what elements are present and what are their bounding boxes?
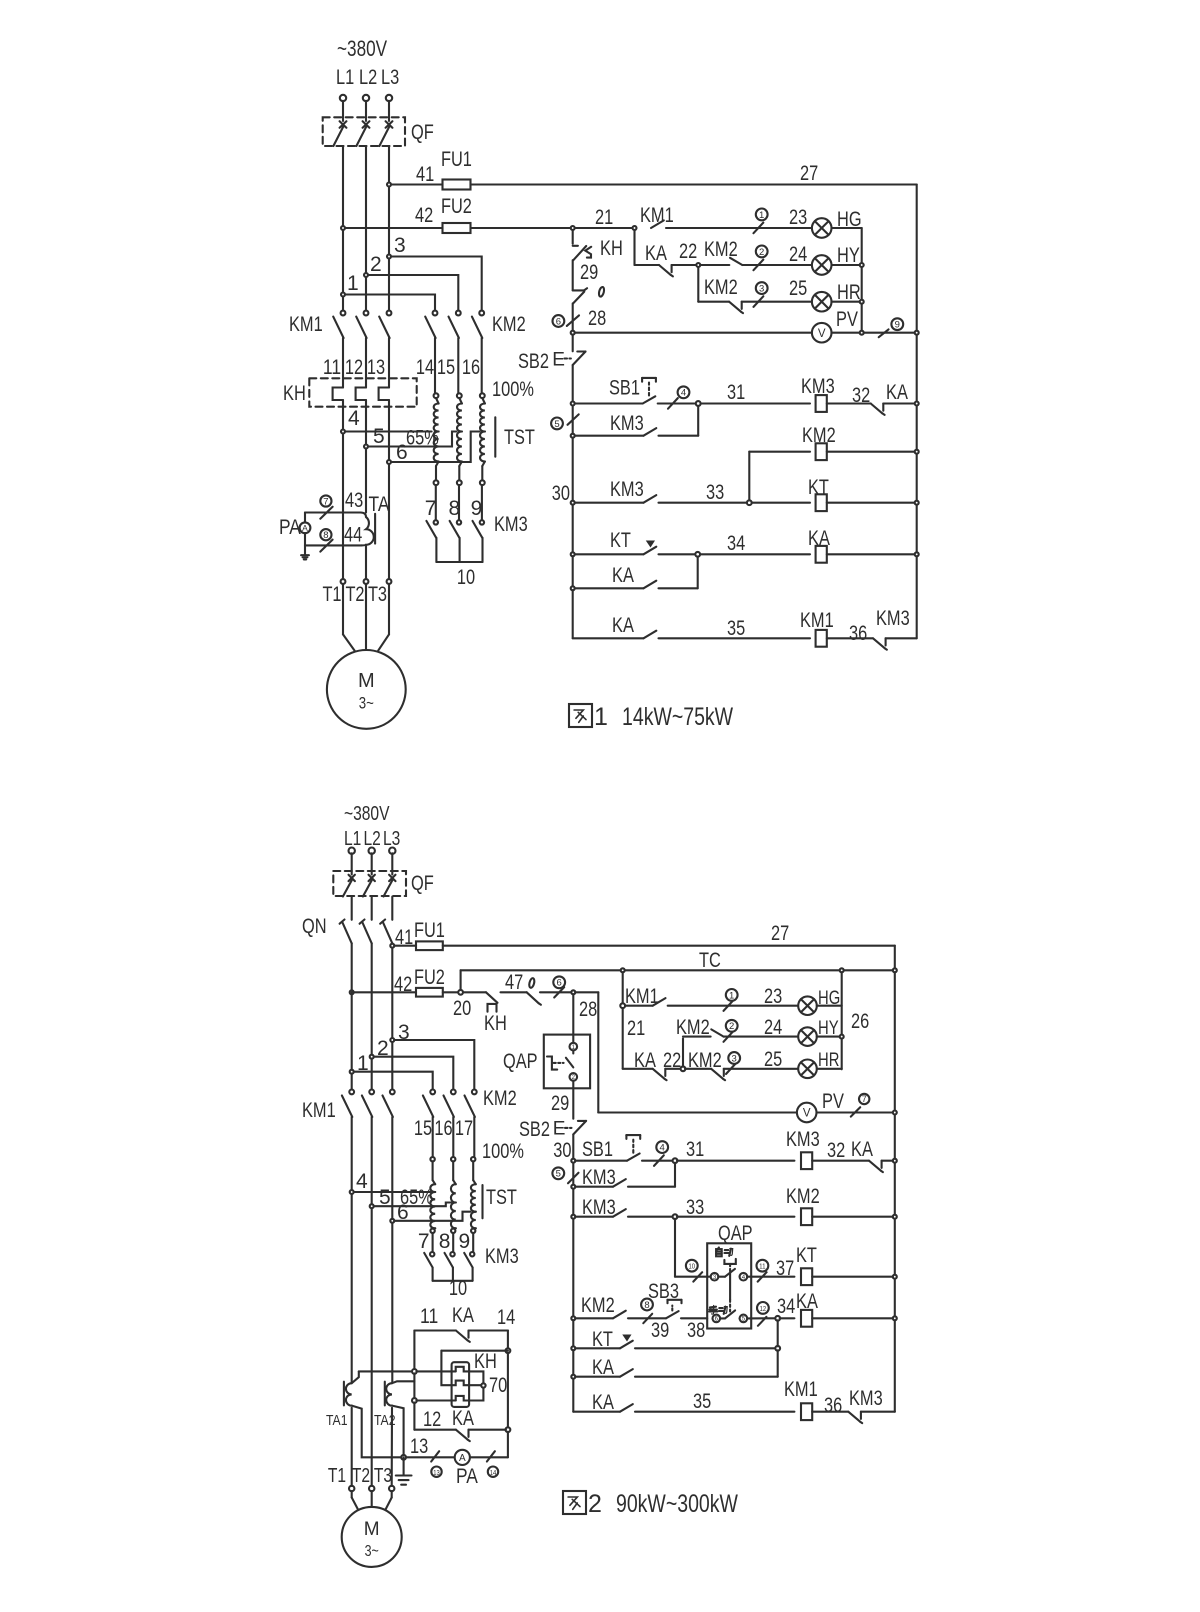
control rail left fig1: [571, 226, 575, 230]
circled 13: [431, 1467, 441, 1477]
wire L1 drop: [342, 101, 344, 121]
svg-text:7: 7: [323, 496, 328, 507]
svg-text:15: 15: [414, 1117, 432, 1140]
svg-text:31: 31: [686, 1138, 704, 1161]
svg-text:38: 38: [687, 1319, 705, 1342]
svg-text:29: 29: [551, 1092, 569, 1115]
svg-text:9: 9: [895, 320, 900, 331]
svg-text:KT: KT: [610, 529, 631, 552]
svg-text:M: M: [364, 1519, 380, 1540]
svg-text:65%: 65%: [406, 427, 439, 450]
svg-text:KM3: KM3: [610, 478, 644, 501]
terminal marker 2 fig2: [724, 1031, 734, 1042]
star bar 10 fig2: [433, 1280, 473, 1282]
wire 28 branch: [575, 991, 598, 993]
terminal marker 3 fig2: [726, 1063, 736, 1074]
terminal T1: [341, 579, 346, 584]
svg-text:KM3: KM3: [485, 1245, 519, 1268]
svg-text:4: 4: [681, 388, 686, 399]
circuit breaker QF fig2: [333, 871, 406, 896]
svg-text:TST: TST: [504, 426, 535, 449]
svg-text:KA: KA: [886, 381, 908, 404]
svg-text:~380V: ~380V: [344, 803, 390, 825]
svg-text:4: 4: [356, 1170, 368, 1193]
wire 44 to ammeter: [305, 544, 362, 546]
wires below QF fig2: [351, 897, 353, 920]
svg-text:KM2: KM2: [704, 276, 738, 299]
svg-text:E: E: [553, 1119, 566, 1140]
svg-text:KA: KA: [612, 614, 634, 637]
svg-text:90kW~300kW: 90kW~300kW: [616, 1490, 738, 1518]
terminal T3: [387, 579, 392, 584]
svg-text:16: 16: [434, 1117, 452, 1140]
terminal L3: [386, 95, 392, 101]
caption fig1: [569, 704, 592, 727]
svg-text:2: 2: [370, 253, 382, 276]
terminal marker 6 fig2: [554, 987, 564, 997]
svg-text:25: 25: [789, 277, 807, 300]
svg-text:PV: PV: [836, 308, 858, 331]
svg-text:HR: HR: [837, 281, 861, 304]
svg-text:3: 3: [732, 1053, 737, 1064]
terminal marker 8: [320, 540, 332, 552]
svg-text:32: 32: [827, 1139, 845, 1162]
svg-text:9: 9: [471, 497, 483, 520]
ammeter PA fig2: [455, 1450, 470, 1465]
row auto contact 37 KT fig2: [674, 1219, 676, 1277]
svg-text:9: 9: [458, 1230, 470, 1253]
row 35: KA contact to KM1 coil: [573, 637, 644, 639]
svg-text:KM2: KM2: [704, 238, 738, 261]
svg-text:SB1: SB1: [582, 1138, 613, 1161]
row 35 KM1 36 KM3 fig2: [573, 1411, 620, 1413]
terminal marker 3: [754, 296, 764, 307]
wire L2 drop: [365, 101, 367, 121]
svg-text:1: 1: [759, 210, 764, 221]
svg-text:4: 4: [660, 1143, 665, 1154]
lamp bus 26 fig2: [840, 968, 844, 972]
svg-text:100%: 100%: [482, 1140, 524, 1163]
fuse FU2 fig2: [350, 990, 354, 994]
svg-text:SB1: SB1: [609, 377, 640, 400]
svg-text:E: E: [552, 349, 565, 370]
svg-text:L2: L2: [359, 66, 377, 89]
transformer TC: [461, 969, 895, 971]
svg-text:2: 2: [759, 247, 764, 258]
svg-text:A: A: [302, 523, 308, 533]
contact with theta: [573, 289, 584, 291]
wire T1 to TA1 continue: [351, 1408, 353, 1486]
svg-text:KH: KH: [600, 237, 623, 260]
heater element 2: [452, 1381, 470, 1386]
wire 43 to ammeter: [305, 511, 361, 513]
svg-text:43: 43: [345, 489, 363, 512]
svg-text:42: 42: [394, 973, 412, 996]
svg-text:30: 30: [552, 482, 570, 505]
fuse FU2: [341, 226, 345, 230]
svg-text:1: 1: [729, 990, 734, 1001]
heater element 3: [416, 1399, 455, 1401]
svg-text:QF: QF: [411, 872, 434, 895]
svg-text:KM3: KM3: [786, 1128, 820, 1151]
node PV row: [571, 331, 575, 335]
svg-text:QN: QN: [302, 915, 327, 938]
svg-text:8: 8: [323, 530, 328, 541]
svg-text:35: 35: [693, 1390, 711, 1413]
terminal marker 1: [754, 223, 764, 234]
svg-text:13: 13: [410, 1435, 428, 1458]
svg-text:KT: KT: [592, 1328, 613, 1351]
wire TA1 secondary top: [359, 1370, 413, 1372]
svg-text:TA: TA: [369, 493, 390, 516]
svg-text:KA: KA: [452, 1304, 474, 1327]
svg-text:35: 35: [727, 617, 745, 640]
svg-text:33: 33: [706, 481, 724, 504]
svg-text:1: 1: [594, 703, 608, 731]
node 20: [458, 990, 463, 995]
svg-text:31: 31: [727, 381, 745, 404]
svg-text:7: 7: [418, 1230, 430, 1253]
terminal marker 1 fig2: [724, 1000, 734, 1011]
star point bar 10: [436, 561, 482, 563]
row HG: contact KM1: [633, 226, 637, 230]
svg-text:KM3: KM3: [582, 1196, 616, 1219]
svg-text:QF: QF: [411, 121, 434, 144]
svg-text:TST: TST: [486, 1186, 517, 1209]
svg-text:11: 11: [323, 356, 341, 379]
svg-text:3: 3: [394, 234, 406, 257]
row HY: contact KA NC: [633, 230, 635, 265]
svg-text:25: 25: [764, 1048, 782, 1071]
svg-text:L3: L3: [381, 66, 399, 89]
lamp HG fig2: [798, 996, 817, 1015]
svg-text:13: 13: [433, 1468, 440, 1477]
fuse FU1: [387, 183, 391, 187]
wire FU2 to control rail: [471, 227, 571, 229]
svg-text:KM3: KM3: [494, 513, 528, 536]
row KM3 seal-in fig2: [572, 1163, 574, 1185]
svg-text:34: 34: [727, 532, 745, 555]
svg-text:QAP: QAP: [718, 1222, 753, 1245]
svg-text:KM3: KM3: [582, 1166, 616, 1189]
svg-text:32: 32: [852, 384, 870, 407]
terminal marker 5: [568, 414, 579, 424]
svg-text:PA: PA: [456, 1465, 478, 1488]
svg-text:5: 5: [556, 1169, 561, 1180]
svg-text:30: 30: [553, 1139, 571, 1162]
lamp bus fig1: [861, 228, 863, 333]
node 70: [469, 1371, 483, 1383]
right rail fig2: [894, 946, 896, 971]
svg-text:KM2: KM2: [492, 313, 526, 336]
svg-text:4: 4: [348, 407, 360, 430]
lamp HG: [812, 218, 832, 238]
svg-text:11: 11: [759, 1262, 766, 1271]
wires mains drops fig2: [351, 853, 353, 874]
svg-text:12: 12: [760, 1304, 767, 1313]
heater element 1: [416, 1370, 455, 1372]
svg-text:37: 37: [776, 1257, 794, 1280]
terminal marker 7 fig2: [851, 1107, 860, 1116]
left vertical of KA block: [413, 1331, 415, 1370]
terminal marker 6: [567, 315, 579, 326]
wire 27 top bus: [471, 183, 917, 185]
svg-text:10: 10: [457, 566, 475, 589]
svg-text:3~: 3~: [359, 694, 374, 713]
svg-text:23: 23: [764, 985, 782, 1008]
svg-text:5: 5: [373, 425, 385, 448]
svg-text:KH: KH: [474, 1350, 497, 1373]
wire TA1 secondary bottom: [352, 1406, 402, 1458]
svg-text:3~: 3~: [365, 1543, 379, 1560]
row HR: contact KM2 lower: [697, 267, 699, 302]
svg-text:7: 7: [425, 497, 437, 520]
svg-text:T1: T1: [322, 583, 341, 606]
svg-text:15: 15: [437, 356, 455, 379]
svg-text:KH: KH: [283, 382, 306, 405]
wire KH feed top: [441, 1351, 451, 1386]
terminal marker 10: [693, 1272, 702, 1281]
wire TA2 secondary top: [392, 1381, 414, 1383]
top bus 27 fig2: [443, 945, 895, 947]
svg-text:34: 34: [777, 1295, 795, 1318]
row KM3 seal-in contact: [571, 434, 575, 438]
svg-text:26: 26: [851, 1010, 869, 1033]
svg-text:20: 20: [453, 997, 471, 1020]
svg-text:11: 11: [420, 1305, 438, 1328]
terminals L1 L2 L3 fig2: [349, 848, 355, 854]
terminal marker 8: [643, 1314, 652, 1323]
svg-text:SB2: SB2: [518, 350, 549, 373]
svg-text:FU1: FU1: [414, 919, 445, 942]
row KA contact fig2: [572, 1350, 574, 1374]
wire TA2 secondary bottom: [392, 1406, 404, 1456]
row PV fig2: [598, 1111, 797, 1113]
svg-text:24: 24: [764, 1016, 782, 1039]
svg-text:KA: KA: [851, 1138, 873, 1161]
svg-text:FU2: FU2: [414, 966, 445, 989]
svg-text:FU2: FU2: [441, 195, 472, 218]
svg-text:12: 12: [423, 1408, 441, 1431]
row SB1: start button: [571, 402, 575, 406]
svg-text:36: 36: [849, 622, 867, 645]
autotransformer TST: [434, 393, 439, 398]
svg-text:6: 6: [557, 978, 562, 989]
svg-text:T2: T2: [352, 1465, 370, 1487]
wire T3 continue: [391, 1408, 393, 1486]
svg-text:KM3: KM3: [876, 607, 910, 630]
row PV: voltmeter: [575, 332, 812, 334]
svg-text:21: 21: [595, 206, 613, 229]
svg-text:KM1: KM1: [302, 1099, 336, 1122]
svg-text:KM1: KM1: [784, 1378, 818, 1401]
svg-text:16: 16: [462, 356, 480, 379]
svg-text:41: 41: [395, 926, 413, 949]
motor M fig2: [351, 1491, 353, 1497]
wire L2 below QF: [365, 146, 367, 311]
terminal marker 4 fig2: [654, 1155, 664, 1166]
svg-text:TA1: TA1: [326, 1412, 348, 1429]
svg-text:V: V: [818, 328, 826, 340]
svg-text:PV: PV: [822, 1090, 844, 1113]
svg-text:QAP: QAP: [503, 1050, 538, 1073]
svg-text:KA: KA: [645, 242, 667, 265]
svg-text:KM2: KM2: [581, 1294, 615, 1317]
terminal marker 2: [754, 260, 764, 271]
motor M 3~: [342, 584, 344, 635]
svg-text:44: 44: [344, 524, 362, 547]
svg-text:2: 2: [588, 1490, 602, 1518]
svg-text:12: 12: [345, 356, 363, 379]
svg-text:14: 14: [490, 1468, 497, 1477]
wire right rail fig1: [916, 185, 918, 639]
svg-text:KT: KT: [796, 1244, 817, 1267]
wire L3 below QF: [388, 146, 390, 311]
terminal L2: [363, 95, 369, 101]
wire L1 below QF: [342, 146, 344, 311]
svg-text:PA: PA: [279, 516, 301, 539]
svg-text:TC: TC: [699, 949, 721, 972]
svg-text:10: 10: [689, 1262, 696, 1271]
svg-text:21: 21: [627, 1017, 645, 1040]
svg-text:V: V: [803, 1108, 811, 1120]
right vertical of KA block: [507, 1331, 509, 1349]
svg-text:14: 14: [416, 356, 434, 379]
svg-text:28: 28: [579, 998, 597, 1021]
row HY fig2: [622, 1008, 624, 1069]
terminal marker 7: [320, 507, 332, 519]
lamp HY fig2: [798, 1027, 817, 1046]
terminal marker 4: [668, 398, 678, 409]
row KT contact to KA coil: [571, 552, 575, 556]
svg-text:33: 33: [686, 1196, 704, 1219]
wire L3 to tap3: [391, 948, 393, 1038]
svg-text:14kW~75kW: 14kW~75kW: [622, 703, 733, 731]
svg-text:36: 36: [824, 1394, 842, 1417]
row KM2 coil: [749, 451, 810, 453]
svg-text:KH: KH: [484, 1012, 507, 1035]
svg-text:24: 24: [789, 243, 807, 266]
svg-text:5: 5: [554, 419, 559, 430]
row KM3 33 KM2-coil fig2: [571, 1215, 575, 1219]
lamp HY: [812, 255, 832, 275]
lamp feed vertical fig2: [621, 968, 625, 972]
thermal contact KH fig2: [463, 991, 486, 993]
svg-text:27: 27: [800, 162, 818, 185]
svg-text:L1: L1: [336, 66, 354, 89]
svg-text:100%: 100%: [492, 378, 534, 401]
svg-text:29: 29: [580, 261, 598, 284]
wire KM2 coil branch: [748, 452, 750, 501]
svg-text:KM3: KM3: [610, 412, 644, 435]
svg-text:70: 70: [489, 1374, 507, 1397]
circled 14: [488, 1467, 498, 1477]
row HR fig2: [623, 1068, 653, 1070]
row HG fig2: [620, 1003, 625, 1008]
svg-text:13: 13: [367, 356, 385, 379]
terminal marker 9: [879, 329, 889, 337]
terminal marker 12: [758, 1317, 767, 1326]
caption fig2: [563, 1491, 586, 1514]
svg-text:39: 39: [651, 1319, 669, 1342]
svg-text:T1: T1: [328, 1465, 346, 1487]
svg-text:3: 3: [759, 284, 764, 295]
ground fig2: [403, 1457, 405, 1475]
row KM2 SB3 manual 34 KA fig2: [571, 1316, 575, 1320]
voltmeter PV: [812, 323, 832, 343]
svg-text:KM1: KM1: [800, 609, 834, 632]
svg-text:KM2: KM2: [786, 1185, 820, 1208]
svg-text:HY: HY: [837, 244, 860, 267]
terminal T2: [364, 579, 369, 584]
pushbutton SB3: [666, 1311, 679, 1318]
svg-text:KA: KA: [592, 1356, 614, 1379]
row SB1 fig2: [571, 1159, 575, 1163]
svg-text:23: 23: [789, 206, 807, 229]
terminal marker 5 fig2: [568, 1173, 579, 1183]
ground: [304, 545, 306, 555]
svg-text:8: 8: [439, 1230, 451, 1253]
svg-text:10: 10: [449, 1277, 467, 1300]
svg-text:KA: KA: [452, 1407, 474, 1430]
svg-text:M: M: [358, 670, 375, 692]
svg-text:KM1: KM1: [289, 313, 323, 336]
svg-text:1: 1: [347, 272, 359, 295]
svg-text:KM2: KM2: [483, 1087, 517, 1110]
svg-text:14: 14: [497, 1306, 515, 1329]
lamp HR: [812, 292, 832, 312]
svg-text:41: 41: [416, 163, 434, 186]
svg-text:28: 28: [588, 307, 606, 330]
svg-text:2: 2: [729, 1021, 734, 1032]
circuit breaker QF: [323, 117, 405, 146]
svg-text:47: 47: [505, 971, 523, 994]
svg-text:42: 42: [415, 204, 433, 227]
svg-text:27: 27: [771, 922, 789, 945]
wire L3 drop: [388, 101, 390, 121]
svg-text:SB2: SB2: [519, 1118, 550, 1141]
svg-text:~380V: ~380V: [337, 36, 387, 61]
svg-text:7: 7: [862, 1094, 867, 1104]
voltmeter PV fig2: [797, 1103, 817, 1123]
terminal marker 11: [758, 1272, 767, 1281]
svg-text:FU1: FU1: [441, 148, 472, 171]
svg-text:T3: T3: [374, 1465, 392, 1487]
svg-text:T3: T3: [368, 583, 387, 606]
terminal L1: [340, 95, 346, 101]
svg-text:KA: KA: [592, 1391, 614, 1414]
svg-text:KA: KA: [612, 564, 634, 587]
row KT contact fig2: [572, 1320, 574, 1346]
svg-text:22: 22: [679, 240, 697, 263]
row KA seal-in contact: [571, 586, 575, 590]
svg-text:22: 22: [663, 1049, 681, 1072]
svg-text:6: 6: [556, 316, 561, 327]
lamp HR fig2: [798, 1060, 817, 1079]
fuse FU1 fig2: [390, 944, 394, 948]
svg-text:KM3: KM3: [849, 1387, 883, 1410]
svg-text:A: A: [459, 1453, 466, 1464]
svg-text:17: 17: [455, 1117, 473, 1140]
svg-text:T2: T2: [345, 583, 364, 606]
